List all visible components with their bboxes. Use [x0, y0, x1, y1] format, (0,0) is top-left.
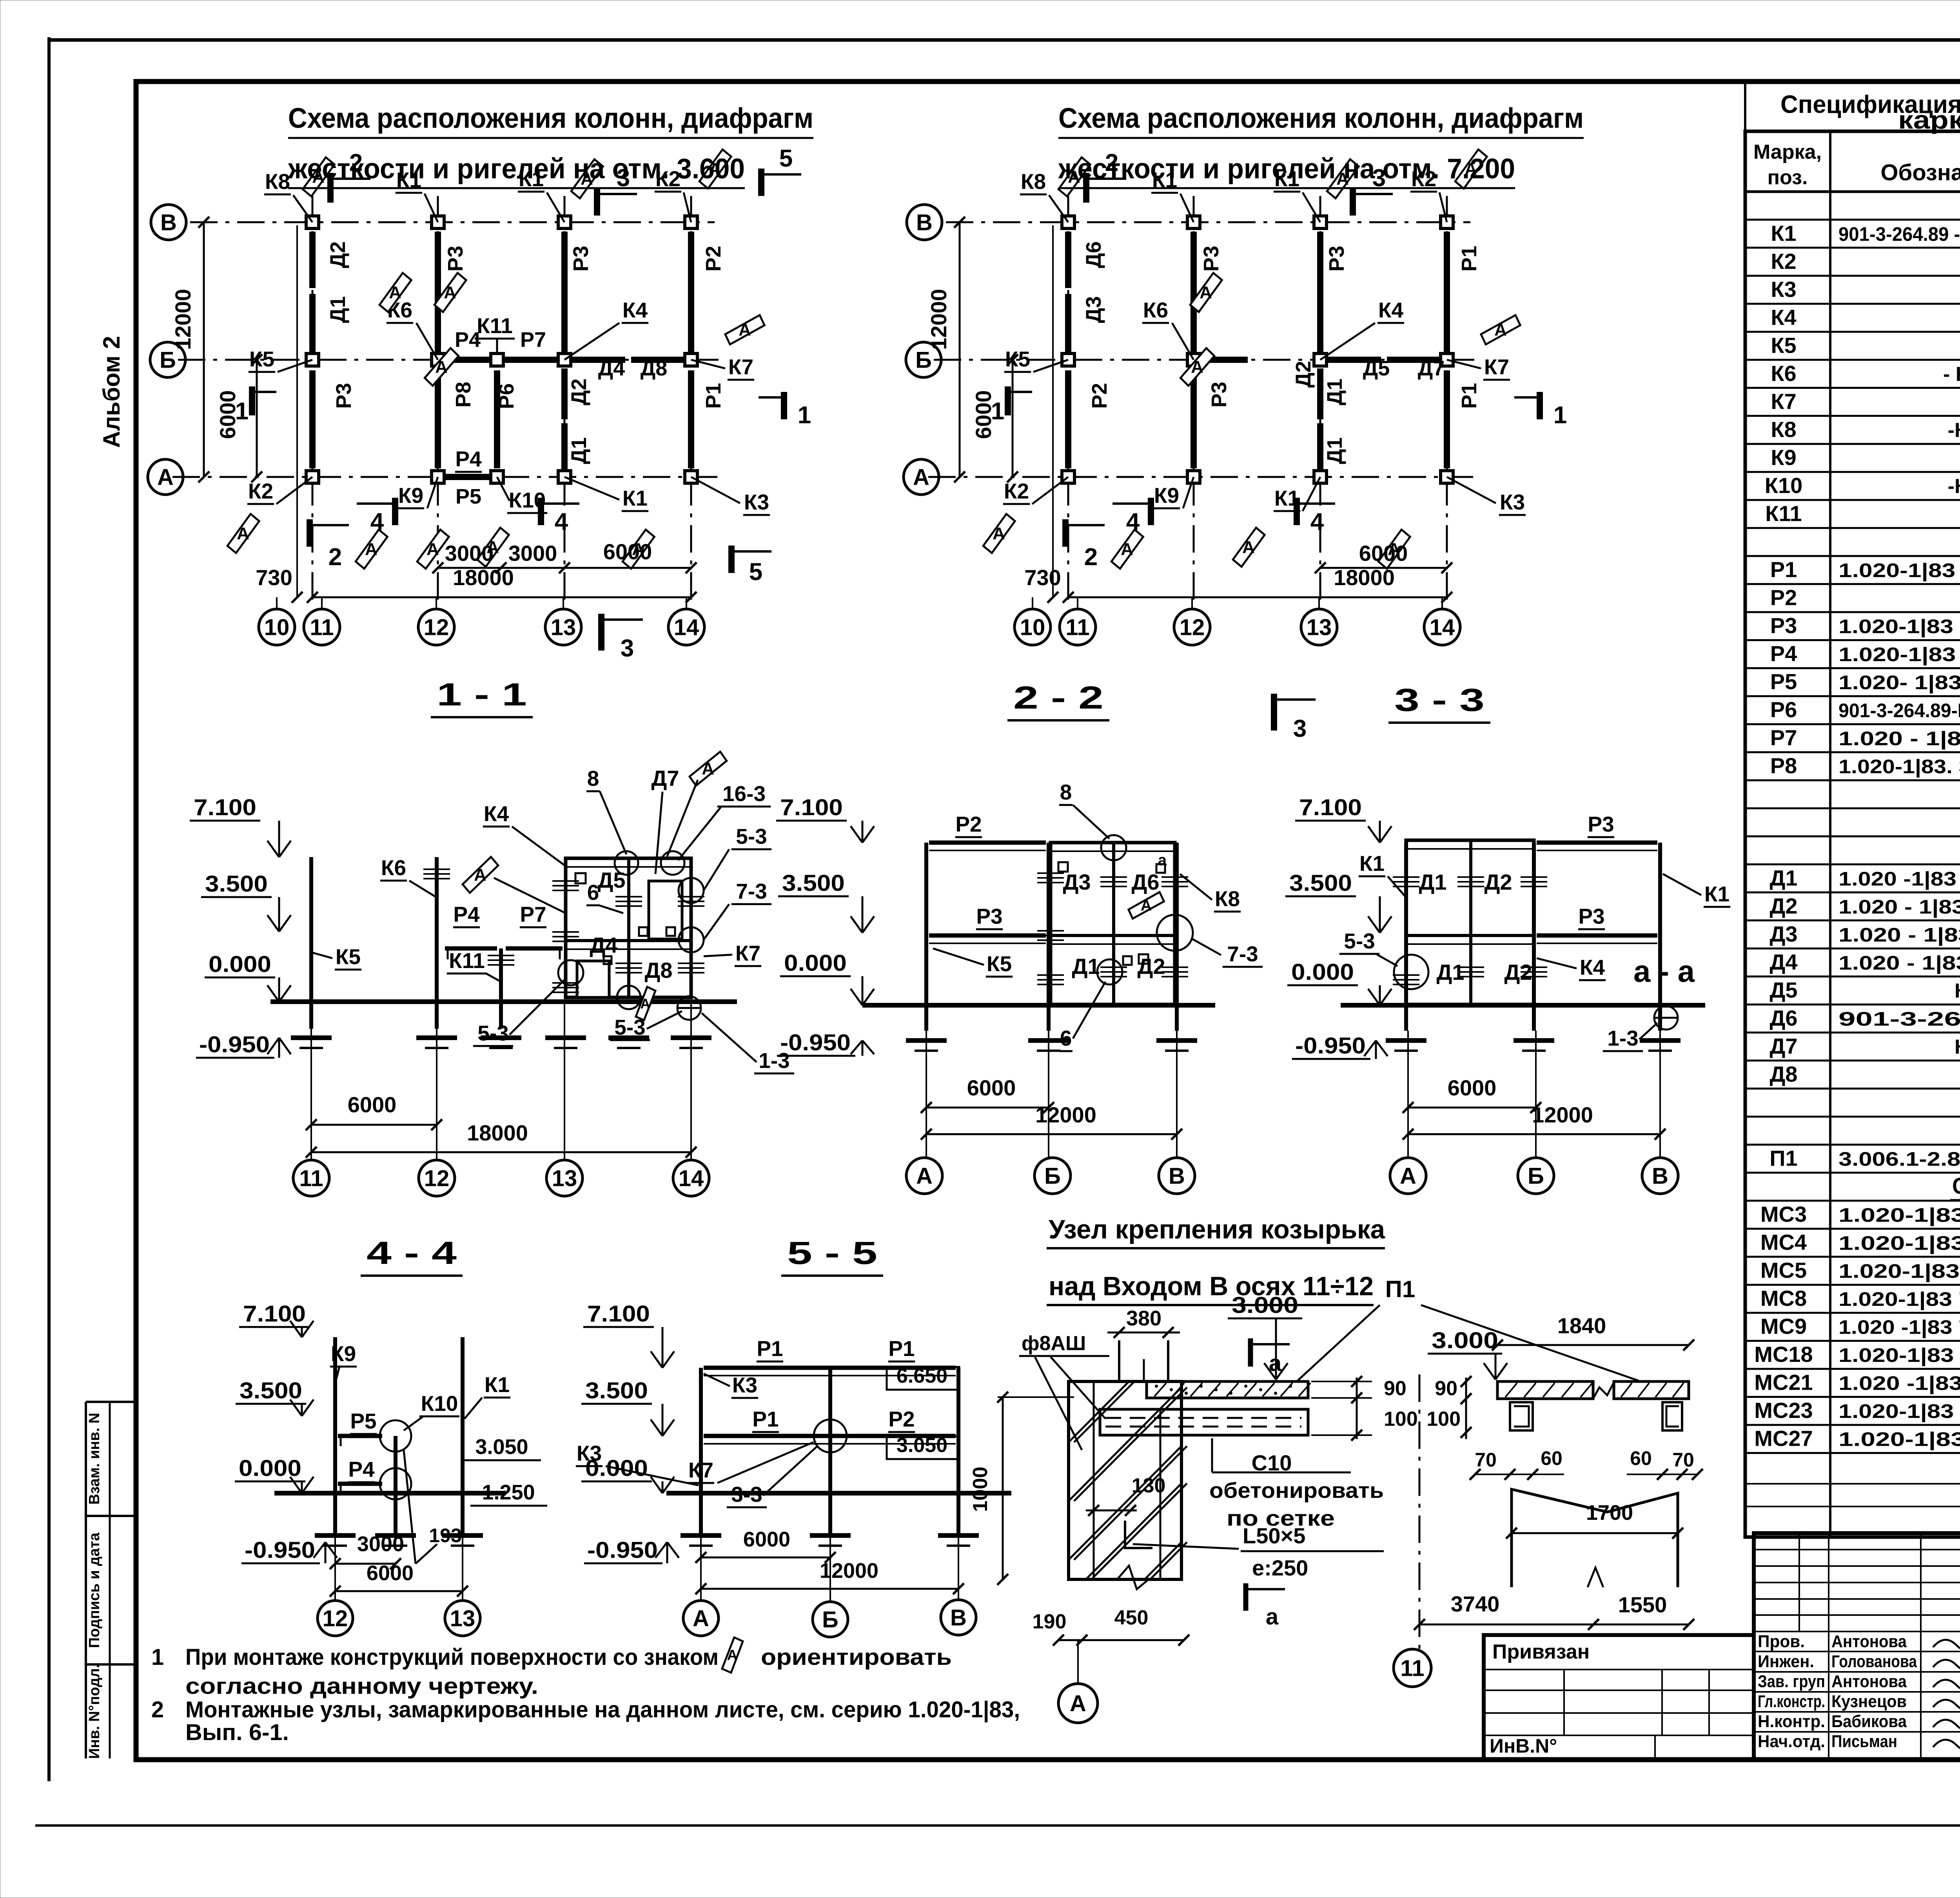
plan bar — [435, 370, 441, 468]
svg-text:3: 3 — [1293, 715, 1307, 742]
svg-text:Р8: Р8 — [1770, 753, 1797, 778]
svg-text:Р3: Р3 — [976, 904, 1002, 928]
svg-text:К5: К5 — [336, 944, 361, 969]
svg-text:12000: 12000 — [171, 289, 195, 350]
svg-text:А: А — [474, 865, 486, 885]
svg-text:1.020-1|83 6-1 084: 1.020-1|83 6-1 084 — [1838, 1400, 1960, 1423]
diamond top — [687, 745, 729, 793]
dim 6000 vertical — [1012, 360, 1014, 477]
svg-text:К5: К5 — [987, 952, 1012, 976]
foundation — [545, 1035, 586, 1040]
svg-text:Соединительные элементы: Соединительные элементы — [1952, 1173, 1960, 1199]
svg-text:Д2: Д2 — [1292, 361, 1315, 388]
dim 90/100 — [1465, 1378, 1467, 1439]
flag a top — [1248, 1338, 1253, 1367]
orientation mark — [1232, 524, 1266, 570]
column — [432, 471, 444, 483]
dim 6000 — [1408, 1107, 1536, 1109]
svg-text:8: 8 — [587, 766, 599, 790]
junction hatch — [1037, 872, 1064, 874]
junction hatch — [1100, 966, 1127, 968]
SECTION 1-1 — [190, 677, 794, 1196]
axis circle bottom — [276, 597, 278, 609]
orientation mark — [433, 269, 467, 315]
junction hatch — [1100, 876, 1127, 878]
axis circle — [1518, 1158, 1554, 1194]
svg-text:901-3-264.89-КЖ.И. 23.000: 901-3-264.89-КЖ.И. 23.000 — [1838, 700, 1960, 721]
orientation mark — [722, 306, 768, 353]
column A — [699, 1368, 703, 1537]
axis circle — [1159, 1158, 1195, 1194]
beam P1 top — [704, 1366, 956, 1370]
foundation — [291, 1035, 332, 1040]
dim 18000 — [311, 1151, 691, 1153]
svg-text:-0.950: -0.950 — [199, 1032, 270, 1057]
slab hatch — [1524, 1383, 1536, 1397]
svg-text:Б: Б — [1044, 1163, 1061, 1189]
node circle 5-3 — [1394, 955, 1428, 989]
circle stem — [436, 1002, 437, 1160]
svg-text:7.100: 7.100 — [1299, 795, 1362, 820]
plan bar — [1065, 370, 1071, 468]
slab hatch — [1673, 1383, 1684, 1397]
svg-text:К4: К4 — [1771, 305, 1796, 330]
svg-text:3 - 3: 3 - 3 — [1394, 682, 1485, 718]
beam C10 — [1100, 1409, 1308, 1435]
plan bar — [1317, 232, 1323, 355]
svg-text:11: 11 — [310, 615, 334, 640]
node circle — [558, 960, 583, 985]
axis circle A — [1058, 1684, 1098, 1723]
column K10 stub — [394, 1436, 397, 1537]
SECTION 4-4 — [235, 1235, 547, 1636]
svg-text:Р2: Р2 — [1088, 383, 1111, 409]
column — [558, 216, 571, 228]
node circle2 — [380, 1468, 411, 1499]
junction hatch — [423, 868, 450, 870]
axis circle bottom — [1191, 597, 1193, 609]
ground line — [270, 999, 737, 1004]
svg-text:Б: Б — [1528, 1163, 1544, 1189]
circle stem — [1176, 1031, 1178, 1157]
circle stem — [958, 1493, 959, 1601]
svg-text:14: 14 — [679, 1166, 704, 1191]
svg-text:К6: К6 — [1771, 361, 1796, 386]
svg-text:К11: К11 — [1765, 501, 1802, 526]
svg-text:380: 380 — [1126, 1307, 1161, 1330]
svg-text:3.500: 3.500 — [1289, 870, 1352, 896]
svg-text:К10: К10 — [1765, 473, 1802, 498]
svg-text:А: А — [993, 524, 1005, 543]
column — [432, 353, 444, 366]
orientation mark — [301, 154, 336, 200]
flag 3 top — [594, 188, 600, 216]
svg-text:поз.: поз. — [1768, 166, 1808, 189]
svg-text:Р5: Р5 — [456, 485, 481, 508]
axis 11 line — [1419, 1374, 1421, 1649]
svg-text:согласно данному чертежу.: согласно данному чертежу. — [185, 1673, 538, 1699]
axis circle 11 — [1394, 1649, 1431, 1687]
axis 10 line — [296, 225, 298, 597]
svg-text:4: 4 — [370, 508, 384, 535]
svg-text:К11: К11 — [477, 314, 513, 338]
svg-text:А: А — [1494, 320, 1507, 339]
svg-text:Схема расположения колонн, диа: Схема расположения колонн, диафрагм — [288, 103, 813, 134]
svg-text:К5: К5 — [1005, 347, 1030, 371]
plan bar — [435, 232, 441, 355]
specification table grid — [1745, 82, 1960, 1537]
svg-text:Д2: Д2 — [567, 379, 591, 406]
axis circle — [1390, 1158, 1426, 1194]
svg-text:К1: К1 — [1359, 851, 1385, 876]
slab dots — [1155, 1385, 1158, 1388]
orientation mark — [423, 343, 460, 391]
svg-text:-0.950: -0.950 — [587, 1537, 658, 1563]
svg-text:1000: 1000 — [969, 1467, 992, 1512]
dim 6000 — [311, 1124, 437, 1126]
svg-text:Д2: Д2 — [1769, 894, 1797, 918]
node circle — [814, 1419, 847, 1452]
svg-text:А: А — [365, 540, 377, 559]
svg-text:А: А — [916, 1163, 933, 1189]
axis A line — [928, 476, 1474, 478]
circle stem — [334, 1493, 336, 1601]
junction hatch — [678, 896, 704, 897]
svg-text:А: А — [426, 540, 439, 559]
svg-text:Р3: Р3 — [1207, 382, 1231, 408]
column — [558, 353, 571, 366]
slab hatch — [1172, 1383, 1184, 1396]
slab hatch — [1299, 1383, 1310, 1396]
slab hatch — [1245, 1383, 1256, 1396]
axis circle bottom — [321, 597, 323, 609]
window upper — [649, 881, 682, 939]
svg-text:-0.950: -0.950 — [245, 1537, 315, 1563]
svg-text:К3: К3 — [732, 1373, 757, 1397]
svg-text:1.020 - 1|83 4-1: 1.020 - 1|83 4-1 — [1838, 952, 1960, 974]
svg-text:1550: 1550 — [1618, 1592, 1667, 1617]
diamond A — [461, 851, 500, 899]
svg-text:7.100: 7.100 — [243, 1301, 306, 1327]
svg-text:Д7: Д7 — [651, 766, 679, 790]
plan bar — [1065, 294, 1071, 355]
svg-text:5: 5 — [749, 558, 762, 586]
column — [1062, 216, 1074, 228]
axis stem — [1077, 1640, 1079, 1684]
svg-text:А: А — [640, 996, 650, 1012]
column — [432, 216, 444, 228]
axis circle bottom — [1032, 597, 1033, 609]
svg-text:Р1: Р1 — [702, 383, 725, 409]
svg-text:-КЖ.И.13.000: -КЖ.И.13.000 — [1948, 475, 1960, 498]
svg-text:11: 11 — [1400, 1655, 1424, 1681]
svg-text:над Входом В осях 11÷12: над Входом В осях 11÷12 — [1049, 1271, 1374, 1301]
plan bar — [1065, 232, 1071, 288]
svg-text:А: А — [157, 464, 174, 490]
svg-text:1.020 -1|83 6-1 084: 1.020 -1|83 6-1 084 — [1838, 1372, 1960, 1395]
column — [1187, 471, 1200, 483]
diaphragm cluster — [1051, 843, 1175, 1004]
svg-text:К8: К8 — [265, 169, 290, 194]
svg-text:1.020-1|83 6-1 084: 1.020-1|83 6-1 084 — [1838, 1344, 1960, 1367]
flag 2 bottom — [307, 519, 313, 547]
svg-text:Д1: Д1 — [567, 437, 591, 464]
svg-text:Обозначение: Обозначение — [1880, 160, 1960, 185]
junction hatch — [1037, 974, 1064, 976]
slab — [1147, 1381, 1308, 1398]
svg-text:7-3: 7-3 — [1227, 942, 1258, 966]
svg-text:1.020-1|83 7-1 040-02: 1.020-1|83 7-1 040-02 — [1838, 1288, 1960, 1311]
orientation mark — [1057, 154, 1091, 200]
orientation mark — [226, 510, 260, 557]
node circle — [679, 878, 704, 903]
svg-text:450: 450 — [1114, 1606, 1149, 1629]
junction hatch — [1521, 876, 1547, 878]
svg-text:К8: К8 — [1771, 417, 1796, 442]
svg-text:Инжен.: Инжен. — [1758, 1652, 1814, 1671]
svg-text:К2: К2 — [1004, 479, 1029, 503]
svg-text:К9: К9 — [398, 483, 423, 508]
svg-text:К3: К3 — [1500, 490, 1525, 514]
svg-text:13: 13 — [450, 1606, 475, 1631]
wall hatched — [1069, 1381, 1181, 1579]
svg-text:14: 14 — [1430, 615, 1455, 640]
flag 2 top — [1083, 173, 1089, 203]
svg-text:МС23: МС23 — [1754, 1398, 1813, 1423]
svg-text:6000: 6000 — [603, 539, 652, 564]
svg-text:3.000: 3.000 — [1232, 1293, 1298, 1318]
svg-text:МС9: МС9 — [1760, 1314, 1807, 1339]
axis circle bottom — [563, 597, 564, 609]
svg-text:Д4: Д4 — [1769, 950, 1797, 974]
svg-text:Р5: Р5 — [1770, 669, 1797, 694]
axis circle — [419, 1160, 455, 1196]
svg-text:3.000: 3.000 — [1432, 1328, 1498, 1353]
svg-text:100: 100 — [1426, 1408, 1461, 1430]
svg-text:Д2: Д2 — [1484, 870, 1512, 894]
svg-text:Р2: Р2 — [702, 246, 725, 272]
slab piece 2 — [1614, 1381, 1689, 1399]
svg-text:Р1: Р1 — [757, 1336, 783, 1361]
dim 6000 — [926, 1107, 1049, 1109]
svg-text:12: 12 — [323, 1606, 348, 1631]
svg-text:К3: К3 — [744, 490, 769, 514]
channel 2 — [1662, 1402, 1682, 1430]
axis B line — [934, 359, 1474, 361]
svg-text:Б: Б — [822, 1607, 838, 1632]
svg-text:Р2: Р2 — [955, 812, 982, 836]
svg-text:ИнВ.N°: ИнВ.N° — [1490, 1735, 1557, 1757]
column — [1314, 471, 1327, 483]
svg-text:Д2: Д2 — [326, 241, 350, 268]
svg-text:Р1: Р1 — [752, 1407, 779, 1431]
table bottom special rows — [1745, 1448, 1960, 1537]
svg-text:К7: К7 — [735, 941, 760, 965]
wall hatch — [1145, 1542, 1181, 1579]
column — [1314, 216, 1327, 228]
svg-text:Р4: Р4 — [348, 1457, 375, 1481]
column — [1314, 353, 1327, 366]
SECTION 2-2 — [776, 680, 1263, 1194]
column — [685, 216, 697, 228]
svg-text:3.500: 3.500 — [782, 870, 845, 896]
svg-text:Р4: Р4 — [1770, 641, 1797, 666]
svg-text:Инв. N°подл.: Инв. N°подл. — [86, 1664, 103, 1759]
beam P3 — [929, 934, 1046, 938]
Album 2 rotated label — [98, 336, 125, 448]
plan bar — [688, 370, 694, 468]
orientation mark — [416, 526, 450, 572]
svg-text:6000: 6000 — [1359, 541, 1408, 566]
column K5 — [309, 857, 313, 1029]
svg-text:3000: 3000 — [357, 1532, 404, 1556]
svg-text:60: 60 — [1541, 1447, 1563, 1469]
svg-text:6000: 6000 — [967, 1075, 1016, 1100]
junction hatch — [1161, 966, 1188, 968]
column A — [1404, 843, 1408, 1031]
window lower — [577, 961, 609, 997]
svg-text:L50×5: L50×5 — [1243, 1523, 1305, 1548]
svg-text:12000: 12000 — [1532, 1102, 1593, 1127]
svg-text:7-3: 7-3 — [736, 879, 767, 903]
plan bar — [1191, 370, 1197, 468]
PLAN at elevation 3.600 — [148, 103, 813, 662]
svg-text:7.100: 7.100 — [587, 1301, 650, 1327]
slab hatch — [1154, 1383, 1166, 1396]
svg-text:К11: К11 — [449, 948, 485, 973]
svg-text:К7: К7 — [1484, 355, 1509, 379]
svg-text:Д5: Д5 — [597, 868, 625, 892]
junction hatch — [1457, 966, 1484, 968]
plan bar — [309, 370, 316, 468]
svg-text:8: 8 — [1060, 780, 1072, 804]
svg-text:К4: К4 — [484, 801, 509, 826]
svg-text:3740: 3740 — [1451, 1592, 1500, 1616]
svg-text:К8: К8 — [1215, 886, 1240, 911]
svg-text:Бабикова: Бабикова — [1831, 1712, 1907, 1731]
plan bar — [688, 232, 694, 355]
dim 3000 — [335, 1563, 396, 1565]
table rows — [1745, 191, 1960, 1453]
svg-text:К7: К7 — [728, 355, 753, 379]
svg-text:18000: 18000 — [1334, 565, 1395, 590]
ground line — [1341, 1003, 1705, 1008]
A-A drawing — [1394, 1313, 1703, 1687]
svg-text:Кузнецов: Кузнецов — [1831, 1692, 1907, 1711]
axis circle B — [150, 342, 185, 377]
svg-text:К6: К6 — [1143, 298, 1168, 322]
svg-text:К7: К7 — [1771, 389, 1796, 413]
flag 2 bottom — [1062, 519, 1069, 547]
junction hatch — [615, 963, 642, 964]
svg-text:Д1: Д1 — [326, 296, 350, 323]
svg-text:а: а — [1158, 852, 1167, 869]
PLAN at elevation 7.200 — [904, 103, 1584, 742]
node circle 8 — [1101, 835, 1126, 860]
svg-text:70: 70 — [1672, 1449, 1694, 1471]
dim 190/450 — [1058, 1639, 1184, 1641]
orientation mark — [354, 526, 388, 572]
axis circle B — [813, 1602, 848, 1637]
axis circle — [673, 1160, 709, 1196]
axis line — [312, 196, 314, 605]
flag 1 left — [1005, 386, 1011, 415]
svg-text:6: 6 — [1060, 1026, 1072, 1050]
diaphragm cluster — [566, 858, 691, 997]
foundation — [1386, 1038, 1426, 1043]
svg-text:П1: П1 — [1385, 1276, 1416, 1302]
svg-text:Р3: Р3 — [444, 246, 467, 272]
wall break — [1069, 1566, 1181, 1589]
axis B line — [178, 359, 719, 361]
svg-text:Б: Б — [160, 347, 176, 373]
plan bar — [561, 423, 568, 472]
svg-text:Р3: Р3 — [1200, 246, 1223, 272]
column — [1441, 471, 1453, 483]
svg-text:730: 730 — [1024, 565, 1061, 590]
svg-text:Р7: Р7 — [520, 328, 546, 352]
svg-text:90: 90 — [1435, 1377, 1457, 1400]
svg-text:0.000: 0.000 — [239, 1456, 301, 1481]
svg-text:Р3: Р3 — [332, 383, 356, 409]
dim 1000 left — [1002, 1397, 1004, 1579]
svg-text:6000: 6000 — [348, 1092, 397, 1117]
svg-text:К2: К2 — [1771, 249, 1796, 274]
flag a bottom — [1243, 1583, 1249, 1611]
node circle — [661, 851, 684, 875]
junction hatch — [1161, 876, 1188, 878]
svg-text:А: А — [693, 1606, 709, 1631]
svg-text:6000: 6000 — [743, 1528, 790, 1551]
svg-text:730: 730 — [256, 565, 292, 590]
svg-text:А: А — [1191, 357, 1203, 377]
table header texts — [1753, 140, 1960, 189]
svg-text:а: а — [1269, 1351, 1282, 1376]
svg-text:В: В — [950, 1605, 967, 1630]
wall hatch — [1069, 1446, 1181, 1560]
junction hatch — [678, 963, 704, 964]
foundation — [671, 1035, 711, 1040]
svg-text:0.000: 0.000 — [209, 952, 271, 977]
foundation — [1156, 1038, 1197, 1043]
axis circle V — [941, 1600, 976, 1635]
junction hatch — [552, 880, 579, 882]
svg-text:1.020-1|83 3-1 16: 1.020-1|83 3-1 16 — [1838, 644, 1960, 666]
dim 12000 — [1408, 1133, 1660, 1135]
node circle 1-3 — [1654, 1006, 1678, 1030]
axis line — [1067, 196, 1069, 605]
axis circle A — [148, 459, 183, 495]
svg-text:К10: К10 — [421, 1391, 458, 1416]
svg-text:Р8: Р8 — [452, 382, 475, 408]
slab hatch — [1209, 1383, 1220, 1396]
junction hatch — [1393, 876, 1419, 878]
svg-text:Р2: Р2 — [1770, 585, 1797, 610]
ground line — [274, 1491, 506, 1496]
foundation — [1028, 1038, 1069, 1043]
svg-text:3000: 3000 — [445, 541, 494, 566]
svg-text:МС21: МС21 — [1754, 1370, 1813, 1395]
svg-text:Р6: Р6 — [495, 383, 518, 409]
junction hatch — [1457, 876, 1484, 878]
axis circle — [293, 1160, 329, 1196]
svg-text:3.500: 3.500 — [240, 1378, 302, 1403]
plan bar — [309, 294, 316, 355]
svg-text:4 - 4: 4 - 4 — [367, 1235, 457, 1271]
svg-text:Р6: Р6 — [1770, 697, 1797, 722]
svg-text:Д2: Д2 — [1504, 960, 1532, 984]
slab hatch — [1543, 1383, 1555, 1397]
